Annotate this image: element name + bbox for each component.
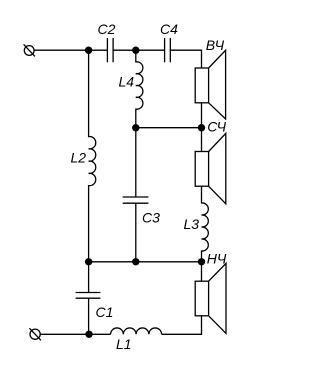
svg-text:C3: C3: [142, 209, 160, 225]
svg-text:C2: C2: [98, 21, 116, 37]
svg-text:L4: L4: [119, 74, 135, 90]
svg-text:СЧ: СЧ: [207, 118, 226, 134]
svg-text:НЧ: НЧ: [207, 250, 227, 266]
svg-text:C1: C1: [96, 304, 114, 320]
svg-text:ВЧ: ВЧ: [206, 37, 225, 53]
svg-text:L3: L3: [184, 216, 200, 232]
svg-text:C4: C4: [160, 21, 178, 37]
svg-text:L1: L1: [116, 336, 132, 352]
svg-text:L2: L2: [71, 149, 87, 165]
